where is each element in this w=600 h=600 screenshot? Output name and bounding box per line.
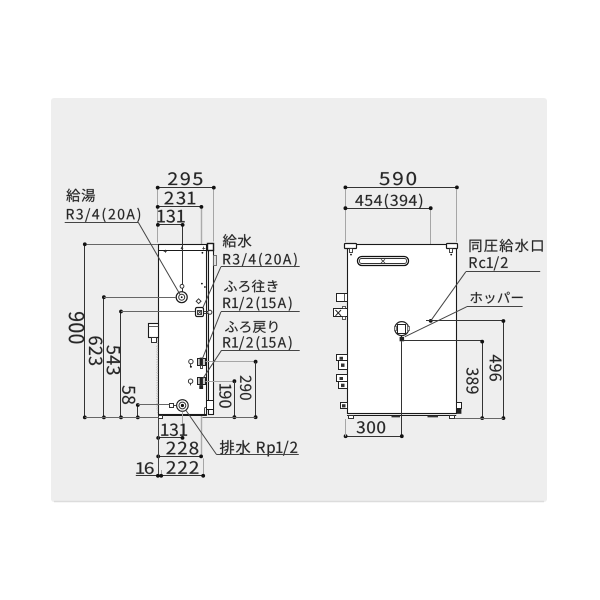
dim 623 vertical line with dots (102, 295, 106, 419)
side view: right lifting bracket (447, 244, 458, 256)
dim text 58 rotated (122, 386, 135, 404)
dim 454(394) line with dots (344, 206, 433, 210)
label furoyuki text (223, 280, 291, 311)
front view: small diamond mark above kyusui connector (196, 299, 201, 304)
dim 590 line with dots (344, 186, 459, 190)
hopper drop line down to 300 dim (401, 341, 403, 436)
side view: louver slot (358, 257, 409, 266)
dim 231 line with dots (156, 205, 204, 209)
ref line furoyuki to 290 dim (206, 360, 258, 364)
ref line cabinet top to 900 (87, 244, 159, 246)
dim text 290 rotated (240, 376, 251, 400)
ext lines for 16/222 (159, 419, 204, 476)
connector haisui (drain) circles (170, 400, 189, 412)
label kyuto underline and leader (65, 222, 181, 294)
label kyusui (water supply) text (223, 234, 297, 267)
dim text 496 rotated (490, 355, 502, 381)
dim 389 vertical line with dots (480, 340, 484, 420)
dim 300 line with dots (344, 434, 404, 438)
connector furoyuki (bath outlet) bolt (189, 358, 206, 369)
dim 300 left extension (345, 419, 347, 436)
label furoyuki underline and leader (202, 312, 299, 360)
front view: left side fuel component (149, 324, 159, 343)
front view: gray extension line from 231 dim down past connectors (x=201.3) (201, 209, 203, 457)
dim 190 vertical line (233, 381, 237, 419)
connector kyuto (hot water outlet) double circle (176, 292, 187, 303)
dim text 389 rotated (466, 368, 478, 394)
dim text 543 rotated (107, 345, 121, 374)
front view: right side tab bracket (214, 256, 217, 266)
ref line kyuto height (104, 297, 176, 299)
ref line kyusui height (121, 311, 195, 313)
dim 290 vertical line (254, 362, 258, 419)
front view: small vent circle above kyuto connector (180, 284, 184, 288)
side view: furomodori connector protrusion (337, 375, 348, 389)
dim text 222 (167, 461, 199, 474)
dim text 300 (357, 421, 386, 433)
side view: drain protrusion (341, 403, 348, 409)
side view: kyusui connector protrusion (334, 307, 348, 320)
label hopper underline and leader (405, 307, 523, 337)
label hopper text (471, 292, 523, 304)
dim 496 vertical line with dots (502, 319, 506, 420)
dim text 231 (165, 192, 196, 205)
front bottom reference line (85, 417, 159, 419)
label furomodori underline and leader (203, 350, 300, 378)
ref line furomodori to 190 dim (206, 379, 237, 383)
front view: cabinet base line (159, 415, 207, 417)
front view: bottom-right step box (205, 401, 214, 415)
front view: right pipe column (narrow box) (209, 244, 214, 415)
doatsu reference dot (429, 319, 433, 323)
dim 295 line with dots (156, 186, 216, 190)
label haisui (drain) text (220, 440, 297, 456)
connector furomodori (bath return) bolt (188, 377, 205, 389)
front view: 131-dim extension line down to kyuto connector (182, 225, 184, 292)
ref line hopper height 389 (402, 340, 482, 342)
dim text 131 bottom (161, 424, 187, 437)
side view: furoyuki connector protrusion (337, 355, 348, 370)
front view: cabinet top inner edge line (159, 250, 207, 252)
doatsu kyusuiko (equal pressure inlet) component (395, 322, 410, 342)
dim 58 vertical line with dots (136, 403, 140, 419)
label kyusui underline and leader (203, 267, 300, 308)
dim text 590 (379, 172, 416, 185)
label doatsu kyusuiko text (470, 239, 543, 271)
side view: left lifting bracket (345, 244, 357, 256)
dim 228 line with dots (156, 455, 203, 459)
dim text 228 (166, 442, 198, 455)
side view: cabinet base line (347, 415, 456, 417)
side view: cabinet body outline (348, 245, 457, 414)
dim 131 line with dots (156, 223, 185, 227)
side view: bottom rubber pads (392, 416, 439, 418)
dim text 295 (168, 172, 202, 185)
dim text 131 (157, 210, 184, 223)
gray product-image card background (51, 98, 547, 502)
dim 295 extension lines (158, 190, 214, 243)
front view: screw marks on top band (164, 247, 206, 288)
ref line drain height (138, 404, 170, 406)
side view: gray ext line 454 down to doatsu dot (430, 210, 432, 321)
dim 131 bottom line with dots (156, 436, 184, 440)
bottom ref line to 190/290 (203, 417, 256, 419)
side view: kyuto connector protrusion (337, 294, 348, 302)
side bottom ground ref line (455, 418, 503, 420)
side view: bottom right anchor bracket (457, 403, 462, 414)
dim 900 vertical line with dots (83, 242, 87, 419)
dim text 16 (136, 462, 153, 474)
dim 543 vertical line with dots (119, 310, 123, 420)
front view: pipe column top cap (208, 244, 214, 251)
ref line doatsu height 496 (426, 320, 503, 322)
connector kyusui (water inlet) valve body (196, 308, 212, 317)
dim text 454(394) (355, 194, 422, 209)
label kyuto (hot water) text (66, 189, 140, 222)
ext line drain center down (182, 412, 184, 438)
side view: feet (349, 416, 455, 419)
front view: left edge gasket texture (157, 336, 158, 414)
dim text 190 rotated (219, 384, 231, 408)
dim text 623 rotated (89, 337, 103, 366)
dim 590 extension lines (346, 189, 457, 242)
front view: cabinet body outline (159, 245, 207, 415)
dim text 900 rotated (69, 312, 85, 343)
label furomodori text (223, 321, 291, 350)
label haisui leader and underline (186, 410, 299, 455)
label doatsu underline and leader (432, 272, 540, 320)
front view: left foot (159, 416, 163, 419)
dim 222 and 16 line with dots (136, 474, 205, 478)
